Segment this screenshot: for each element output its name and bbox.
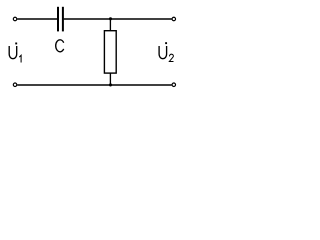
wire top-left: left terminal to capacitor bbox=[17, 18, 57, 20]
resistor body bbox=[104, 31, 116, 73]
capacitor C plate left bbox=[57, 7, 59, 32]
junction dot bottom node bbox=[109, 83, 112, 86]
junction dot top node bbox=[109, 17, 112, 20]
wire bottom: left terminal to right terminal bbox=[17, 84, 171, 86]
terminal circle top-right bbox=[172, 17, 176, 21]
label U2 dot (phasor dot) bbox=[165, 42, 167, 44]
label U1 dot (phasor dot) bbox=[15, 43, 17, 45]
terminal circle bottom-left bbox=[13, 83, 16, 87]
wire resistor lead bottom bbox=[109, 73, 111, 85]
capacitor C plate right bbox=[62, 7, 64, 32]
label U2 voltage U bbox=[159, 46, 167, 59]
label C bbox=[56, 40, 64, 52]
label U2 subscript 2 bbox=[169, 54, 173, 61]
wire resistor lead top bbox=[109, 19, 111, 31]
label U1 subscript 1 bbox=[19, 55, 21, 62]
terminal circle bottom-right bbox=[172, 83, 176, 87]
wire top-right: capacitor to right terminal bbox=[64, 18, 172, 20]
label U1 voltage U bbox=[9, 46, 17, 59]
terminal circle top-left bbox=[13, 17, 16, 21]
